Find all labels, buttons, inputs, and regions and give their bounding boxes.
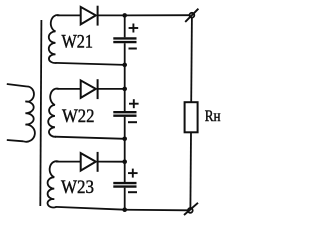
wire: diode VD3 cathode to node C — [98, 161, 125, 163]
wire: diode VD2 cathode to node B — [98, 88, 125, 90]
wire: bus segment C2 to C3 — [124, 117, 126, 182]
diode VD2 — [81, 79, 98, 99]
node: bottom rail junction dot — [122, 207, 127, 212]
capacitor C3 plates — [113, 183, 136, 187]
primary winding W1 top lead — [7, 84, 27, 87]
diode VD1 — [81, 6, 98, 26]
secondary winding W21 coil — [49, 15, 60, 63]
wire: W22 anode lead — [57, 88, 81, 90]
svg-text:W21: W21 — [62, 33, 94, 53]
wire: diode VD1 cathode to node A — [98, 14, 125, 16]
capacitor C2 minus sign — [128, 121, 137, 123]
svg-text:W23: W23 — [61, 178, 94, 198]
wire: bottom rail coil to bus — [56, 207, 125, 210]
wire: bottom rail bus to bottom terminal — [125, 209, 188, 212]
capacitor C3 plus sign — [128, 169, 138, 178]
node B junction dot — [122, 87, 127, 92]
wire: bus segment C1 to C2 — [124, 43, 126, 111]
diode VD3 — [81, 152, 98, 172]
wire: W21 bottom lead to bus — [56, 63, 125, 65]
node A junction dot — [122, 13, 127, 18]
capacitor C3 minus sign — [128, 191, 137, 193]
capacitor C2 plus sign — [129, 99, 139, 108]
primary winding W1 bottom lead — [7, 140, 24, 141]
load branch wire top — [190, 18, 193, 103]
wire: bus segment C3 to bottom rail — [124, 188, 126, 210]
secondary winding W23 coil — [48, 161, 59, 207]
resistor Rn box — [185, 102, 198, 132]
wire: node A to top terminal — [125, 14, 190, 16]
wire: W21 anode lead — [57, 14, 80, 16]
capacitor C1 plates — [113, 38, 136, 42]
node: W22 bottom junction dot — [122, 137, 127, 142]
node: W21 bottom junction dot — [122, 63, 127, 68]
wire: W23 anode lead — [56, 161, 80, 163]
node C junction dot — [122, 159, 127, 164]
transformer core — [40, 20, 41, 206]
capacitor C1 minus sign — [129, 48, 137, 50]
svg-text:W22: W22 — [62, 107, 95, 127]
secondary winding W22 coil — [48, 89, 59, 137]
capacitor C2 plates — [113, 112, 136, 116]
svg-text:Rн: Rн — [205, 108, 221, 125]
capacitor C1 plus sign — [129, 24, 139, 33]
bottom output terminal — [184, 203, 198, 215]
load branch wire bottom — [189, 132, 192, 208]
primary winding W1 coil — [24, 86, 35, 141]
top output terminal — [185, 9, 198, 22]
wire: W22 bottom lead to bus — [55, 137, 125, 139]
wire: bus segment node A to C1 — [124, 15, 126, 37]
